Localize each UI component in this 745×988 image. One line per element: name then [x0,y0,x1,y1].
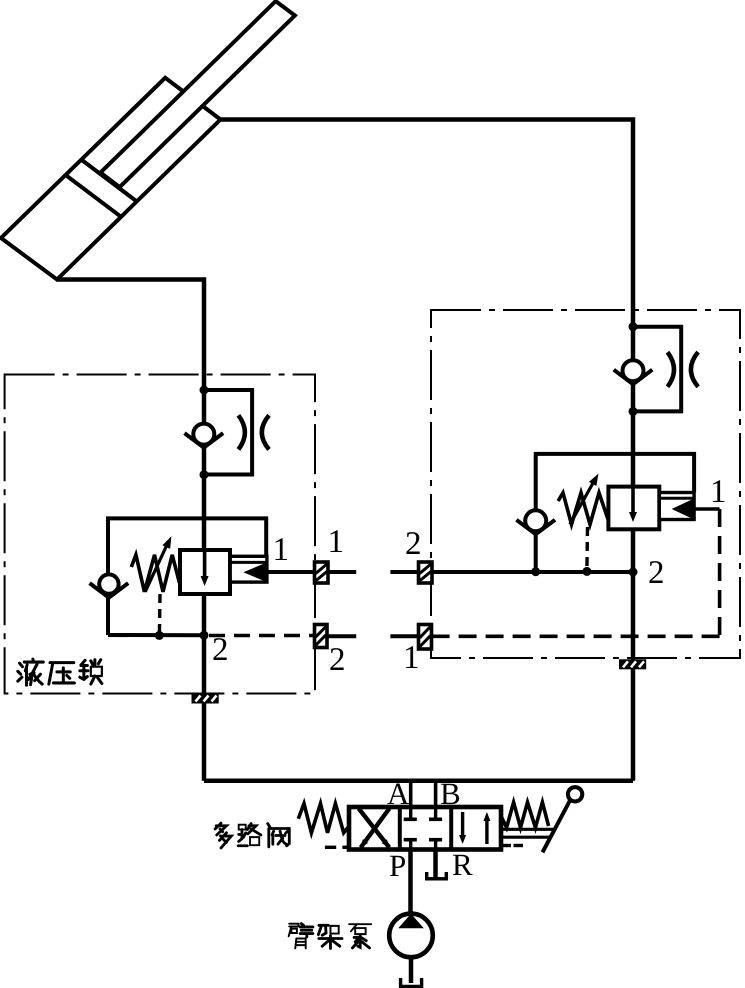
tank at R port [427,872,447,879]
V2 pilot dashed drop [585,527,589,570]
pump suction line [409,957,414,983]
valve DV body [349,807,501,850]
check valve CV3 (right block, on main line) [623,360,644,381]
svg-text:1: 1 [403,640,420,676]
DV centre cell blocked ports [409,807,412,818]
port block R2 (hatched) [419,562,433,583]
wire port2-R stub [390,570,418,574]
node J8 [582,567,591,576]
V2 pilot arrow (solid triangle) [672,499,694,519]
svg-text:2: 2 [329,642,346,678]
check valve CV1 (left block, on main line) [193,424,214,445]
wire port2 stub [328,634,356,638]
V2 pilot dashed horizontal to port 1 [431,634,720,638]
check valve CV4 (right block, bypass) [525,510,546,531]
wire rod-end line to right main line [221,120,634,781]
svg-text:P: P [389,848,406,883]
DV left detent dashes [325,846,336,849]
svg-text:2: 2 [648,555,665,591]
node J6 (right loop bottom) [629,407,638,416]
wire right port2 line [432,570,634,574]
pump tank [401,978,422,987]
left block boundary (dash-dot) [5,375,315,694]
wire port2-L dashed from main [209,634,315,638]
DV left spring [298,804,349,833]
label 液压锁 [18,659,44,685]
node J2 (left loop bottom) [200,470,209,479]
V1 flow path line [203,552,207,578]
DV lever arm [543,801,570,852]
wire R to tank [433,850,438,880]
V1 pilot dashed line [158,594,162,634]
port block R1 (hatched) [419,625,432,650]
V1 pilot arrow (solid triangle) [243,563,266,582]
V1 pilot cap box [230,556,267,582]
port block L2 (hatched) [315,625,328,648]
V1 outer pilot loop [108,518,266,635]
hydraulic cylinder barrel [1,78,221,280]
cylinder piston (two band lines) [81,160,136,202]
V2 flow path line [631,489,635,515]
V2 pilot cap box [659,493,694,520]
check valve CV2 (left block, bypass) [99,574,118,593]
V1 adjustment arrow [145,542,168,592]
svg-text:1: 1 [710,474,727,510]
wire P to pump [408,850,413,914]
counterbalance valve V2 body (right) [608,487,659,530]
svg-text:1: 1 [272,532,289,568]
V2 down arrow head [629,512,637,522]
svg-text:R: R [452,847,473,882]
right bypass loop with orifice [633,327,681,412]
node J4 (left main / port2) [200,631,209,640]
orifice (right block) [668,352,675,387]
node J5 (right loop top) [629,322,638,331]
DV right cell arrows [461,812,464,838]
wire cylinder bottom to left main line [57,280,204,781]
label 臂架泵 [289,924,313,949]
wire B drop [434,781,438,807]
wire A drop [409,781,413,807]
label 多路阀 [215,823,231,848]
node J9 (right main / port2) [629,568,638,577]
svg-text:2: 2 [212,632,229,668]
DV lever knob [568,787,582,801]
V2 spring [558,493,608,525]
left loop bottom wire [108,633,204,637]
wire V2 pilot to corner [694,507,720,511]
right block boundary (dash-dot) [431,310,740,658]
wire bottom bus [204,778,633,783]
V2 outer pilot loop [536,454,694,572]
wire port1 stub [328,570,356,574]
DV right spring [501,802,549,827]
svg-text:2: 2 [405,526,422,562]
left bypass loop with orifice [204,390,252,475]
node J1 (left loop top) [200,386,209,395]
V2 adjustment arrow [570,479,596,525]
svg-text:1: 1 [327,524,344,560]
orifice (left block) [238,415,245,449]
wire V1 pilot to port 1 [267,570,315,574]
V1 down arrow head [201,576,209,586]
left block bottom pad [192,694,219,704]
V1 spring [131,555,179,592]
wire port1-R stub [390,634,418,638]
port block L1 (hatched) [315,562,329,583]
pump (boom pump) [389,914,433,958]
DV left cell crossed arrows [359,809,390,848]
node J7 [531,567,540,576]
right block bottom pad [619,659,646,669]
V2 pilot dashed vertical [718,509,722,636]
counterbalance valve V1 body (left) [180,550,230,594]
node J3 (dashed pilot junction) [155,631,164,640]
cylinder rod [101,1,295,187]
DV lever bracket [501,828,556,831]
DV right detent dashes [503,844,511,847]
